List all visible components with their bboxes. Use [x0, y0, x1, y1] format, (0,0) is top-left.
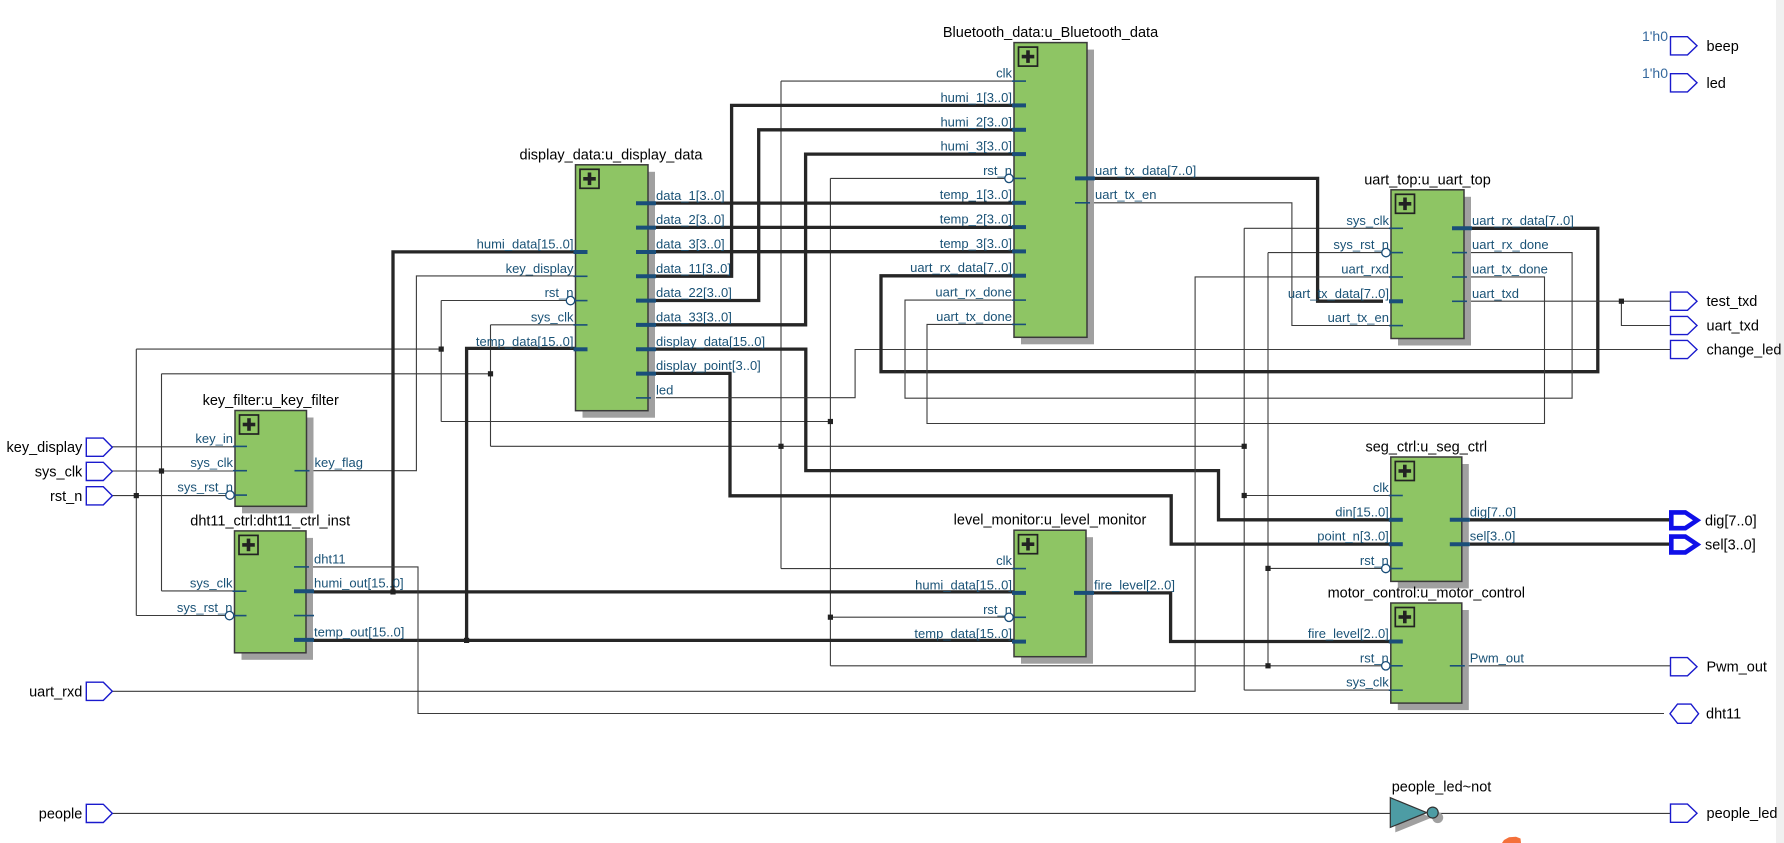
svg-text:uart_top:u_uart_top: uart_top:u_uart_top: [1364, 172, 1491, 188]
module seg_ctrl:u_seg_ctrl: [1317, 440, 1516, 589]
svg-text:temp_1[3..0]: temp_1[3..0]: [940, 187, 1012, 202]
svg-text:key_filter:u_key_filter: key_filter:u_key_filter: [203, 393, 339, 409]
wire sys_clk riser left: [161, 374, 163, 591]
svg-text:display_point[3..0]: display_point[3..0]: [656, 358, 761, 373]
junction rst_n: [828, 419, 833, 424]
svg-text:rst_n: rst_n: [1360, 553, 1389, 568]
wire rst_n riser bluetooth: [829, 178, 831, 665]
wire sys_clk to uart_top: [1244, 227, 1391, 229]
svg-text:rst_n: rst_n: [545, 285, 574, 300]
wire sys_clk to dht11_ctrl: [162, 590, 235, 592]
input pin rst_n: [50, 487, 112, 505]
output pin led: [1671, 74, 1726, 92]
wire data_22 to humi_2: [656, 130, 1014, 301]
wire fire_level bus: [1094, 593, 1391, 642]
junction rst_n: [828, 615, 833, 620]
svg-text:sys_clk: sys_clk: [190, 576, 233, 591]
module key_filter:u_key_filter: [177, 393, 363, 513]
svg-text:data_33[3..0]: data_33[3..0]: [656, 309, 732, 324]
svg-text:people: people: [39, 806, 83, 822]
wire clk to Bluetooth_data: [781, 80, 1014, 82]
svg-text:din[15..0]: din[15..0]: [1335, 504, 1389, 519]
wire uart_rxd pin to uart_top: [112, 277, 1391, 691]
wire key_flag to display key_display: [306, 276, 576, 471]
svg-text:rst_n: rst_n: [50, 489, 82, 505]
svg-text:humi_out[15..0]: humi_out[15..0]: [314, 576, 404, 591]
svg-text:uart_txd: uart_txd: [1707, 319, 1759, 335]
wire rst_n to motor_control: [830, 665, 1382, 667]
junction sys_clk: [488, 371, 493, 376]
wire dht11 to pin: [306, 567, 1664, 714]
wire humi_out bus: [312, 590, 1014, 593]
svg-text:temp_2[3..0]: temp_2[3..0]: [940, 212, 1012, 227]
junction sys_clk: [778, 444, 783, 449]
svg-text:sys_rst_n: sys_rst_n: [177, 600, 233, 615]
wire rst_n pin to key_filter: [112, 495, 226, 497]
inverter people_led~not: [1390, 780, 1491, 833]
svg-text:dht11_ctrl:dht11_ctrl_inst: dht11_ctrl:dht11_ctrl_inst: [190, 513, 350, 529]
svg-text:uart_tx_done: uart_tx_done: [1472, 262, 1548, 277]
svg-text:fire_level[2..0]: fire_level[2..0]: [1308, 626, 1389, 641]
wire display_point to seg point_n: [656, 373, 1391, 544]
wire sys_clk to seg_ctrl: [1244, 495, 1391, 497]
wire uart_rx_data bus: [881, 228, 1598, 371]
wire data_11 to humi_1: [656, 105, 1014, 276]
wire sys_clk riser mid: [490, 325, 492, 447]
wire sel bus to pin: [1470, 542, 1669, 545]
wire data_2 to temp_2: [656, 226, 1014, 229]
module Bluetooth_data:u_Bluetooth_data: [910, 25, 1196, 344]
svg-text:led: led: [656, 382, 673, 397]
wire sys_clk horizontal upper: [162, 373, 491, 375]
wire uart_tx_data bus: [1087, 178, 1383, 301]
svg-text:sys_clk: sys_clk: [35, 464, 83, 480]
wire sys_clk pin to key_filter: [112, 470, 235, 472]
junction rst_n: [134, 493, 139, 498]
wire sys_clk riser right: [1243, 228, 1245, 690]
svg-text:sel[3..0]: sel[3..0]: [1470, 529, 1516, 544]
wire uart_rx_done: [905, 253, 1572, 399]
svg-text:data_1[3..0]: data_1[3..0]: [656, 188, 725, 203]
wire people pin to not gate: [112, 812, 1390, 814]
wire humi branch to display: [393, 252, 576, 592]
wire data_1 to temp_1: [656, 201, 1014, 204]
wire rst_n horizontal top: [136, 348, 441, 350]
wire temp branch to display: [467, 348, 576, 640]
wire rst_n horizontal mid: [441, 421, 830, 423]
svg-text:uart_txd: uart_txd: [1472, 286, 1519, 301]
svg-text:temp_data[15..0]: temp_data[15..0]: [476, 334, 574, 349]
input pin key_display: [7, 438, 113, 456]
svg-text:uart_rxd: uart_rxd: [1341, 262, 1389, 277]
svg-text:temp_data[15..0]: temp_data[15..0]: [914, 626, 1012, 641]
output pin dig[7..0]: [1671, 512, 1756, 529]
svg-text:clk: clk: [1373, 480, 1389, 495]
junction rst_n: [1265, 663, 1270, 668]
wire rst_n to level_monitor: [830, 616, 1005, 618]
svg-text:change_led: change_led: [1707, 343, 1782, 359]
svg-text:sys_rst_n: sys_rst_n: [177, 480, 233, 495]
svg-text:sys_clk: sys_clk: [190, 455, 233, 470]
svg-text:test_txd: test_txd: [1707, 294, 1758, 310]
junction humi_out: [390, 589, 395, 594]
svg-text:seg_ctrl:u_seg_ctrl: seg_ctrl:u_seg_ctrl: [1365, 440, 1487, 456]
svg-text:level_monitor:u_level_monitor: level_monitor:u_level_monitor: [954, 513, 1147, 529]
svg-text:fire_level[2..0]: fire_level[2..0]: [1094, 577, 1175, 592]
svg-text:uart_tx_en: uart_tx_en: [1328, 310, 1389, 325]
wire rst_n riser mid: [440, 301, 442, 422]
svg-text:humi_1[3..0]: humi_1[3..0]: [940, 90, 1012, 105]
svg-text:led: led: [1707, 76, 1726, 92]
svg-text:clk: clk: [996, 553, 1012, 568]
svg-text:data_11[3..0]: data_11[3..0]: [656, 261, 731, 276]
wire rst_n to dht11_ctrl: [136, 615, 226, 617]
svg-text:key_flag: key_flag: [315, 455, 363, 470]
wire uart_txd branch: [1621, 301, 1670, 325]
svg-text:sys_rst_n: sys_rst_n: [1333, 237, 1389, 252]
svg-text:uart_tx_en: uart_tx_en: [1095, 187, 1156, 202]
wire uart_tx_en: [1087, 203, 1391, 326]
svg-text:dig[7..0]: dig[7..0]: [1470, 504, 1516, 519]
svg-text:1'h0: 1'h0: [1642, 65, 1668, 81]
svg-text:sel[3..0]: sel[3..0]: [1705, 538, 1756, 554]
wire led to change_led: [656, 350, 1670, 398]
junction rst_n: [439, 347, 444, 352]
wire rst_n to seg_ctrl: [1268, 567, 1382, 569]
svg-text:data_3[3..0]: data_3[3..0]: [656, 237, 725, 252]
svg-text:Pwm_out: Pwm_out: [1707, 660, 1767, 676]
junction sys_clk: [1242, 444, 1247, 449]
wire rst_n riser right: [1267, 253, 1269, 666]
input pin people: [39, 804, 113, 822]
svg-text:Bluetooth_data:u_Bluetooth_dat: Bluetooth_data:u_Bluetooth_data: [943, 25, 1159, 41]
module uart_top:u_uart_top: [1288, 172, 1574, 345]
output pin sel[3..0]: [1671, 537, 1755, 554]
svg-text:point_n[3..0]: point_n[3..0]: [1317, 529, 1389, 544]
svg-text:rst_n: rst_n: [1360, 650, 1389, 665]
wire clk riser bluetooth: [780, 81, 782, 568]
wire dig bus to pin: [1470, 518, 1669, 521]
wire sys_clk horizontal lower: [491, 445, 1245, 447]
svg-text:display_data:u_display_data: display_data:u_display_data: [520, 147, 704, 163]
wire display_data to seg din: [656, 349, 1391, 520]
svg-text:clk: clk: [996, 66, 1012, 81]
svg-text:data_2[3..0]: data_2[3..0]: [656, 212, 725, 227]
input pin sys_clk: [35, 462, 113, 480]
svg-text:people_led: people_led: [1707, 806, 1778, 822]
svg-text:1'h0: 1'h0: [1642, 28, 1668, 44]
wire rst_n to uart_top: [1268, 252, 1382, 254]
junction rst_n: [1265, 566, 1270, 571]
module display_data:u_display_data: [476, 147, 765, 417]
output pin change_led: [1671, 340, 1782, 358]
svg-text:rst_n: rst_n: [983, 602, 1012, 617]
svg-text:dht11: dht11: [314, 551, 346, 566]
svg-text:rst_n: rst_n: [983, 163, 1012, 178]
wire temp_out bus: [312, 639, 1014, 642]
output pin uart_txd: [1671, 316, 1759, 334]
svg-text:key_display: key_display: [506, 261, 574, 276]
wire Pwm_out to pin: [1467, 665, 1670, 667]
wire data_3 to temp_3: [656, 250, 1014, 253]
svg-text:key_in: key_in: [195, 431, 233, 446]
orange logo fragment: [1502, 837, 1521, 843]
junction sys_clk: [1242, 493, 1247, 498]
svg-text:people_led~not: people_led~not: [1392, 780, 1492, 796]
bidir pin dht11: [1670, 704, 1741, 723]
wire data_33 to humi_3: [656, 154, 1014, 325]
junction sys_clk: [159, 468, 164, 473]
wire uart_txd to test_txd: [1467, 300, 1670, 302]
wire sys_clk to display_data: [491, 324, 576, 326]
wire rst_n riser left: [135, 349, 137, 615]
svg-text:Pwm_out: Pwm_out: [1470, 650, 1525, 665]
svg-text:sys_clk: sys_clk: [1346, 213, 1389, 228]
svg-text:sys_clk: sys_clk: [531, 309, 574, 324]
junction temp_out: [464, 638, 469, 643]
wire rst_n to Bluetooth_data: [830, 177, 1005, 179]
input pin uart_rxd: [29, 682, 112, 700]
output pin test_txd: [1671, 292, 1758, 310]
svg-text:temp_3[3..0]: temp_3[3..0]: [940, 236, 1012, 251]
svg-text:humi_3[3..0]: humi_3[3..0]: [940, 139, 1012, 154]
svg-text:display_data[15..0]: display_data[15..0]: [656, 334, 765, 349]
wire rst_n to display_data: [441, 300, 566, 302]
svg-text:humi_2[3..0]: humi_2[3..0]: [940, 114, 1012, 129]
svg-text:key_display: key_display: [7, 440, 84, 456]
module level_monitor:u_level_monitor: [914, 513, 1175, 664]
svg-text:uart_rxd: uart_rxd: [29, 684, 82, 700]
module motor_control:u_motor_control: [1308, 586, 1525, 711]
svg-text:data_22[3..0]: data_22[3..0]: [656, 285, 732, 300]
svg-text:uart_rx_data[7..0]: uart_rx_data[7..0]: [910, 260, 1012, 275]
wire uart_tx_done: [927, 277, 1545, 424]
scrollbar strip: [1776, 0, 1784, 843]
svg-text:uart_rx_done: uart_rx_done: [935, 285, 1012, 300]
module dht11_ctrl:dht11_ctrl_inst: [177, 513, 404, 659]
junction uart_txd: [1619, 299, 1624, 304]
svg-text:uart_tx_data[7..0]: uart_tx_data[7..0]: [1288, 286, 1389, 301]
svg-text:humi_data[15..0]: humi_data[15..0]: [477, 237, 574, 252]
output pin Pwm_out: [1671, 658, 1767, 676]
svg-text:motor_control:u_motor_control: motor_control:u_motor_control: [1328, 586, 1525, 602]
svg-text:uart_rx_data[7..0]: uart_rx_data[7..0]: [1472, 213, 1574, 228]
wire clk to level_monitor: [781, 568, 1014, 570]
svg-text:uart_rx_done: uart_rx_done: [1472, 237, 1549, 252]
wire key_display pin to key_in: [112, 446, 235, 448]
svg-text:uart_tx_data[7..0]: uart_tx_data[7..0]: [1095, 163, 1196, 178]
svg-text:dht11: dht11: [1706, 707, 1741, 723]
svg-text:temp_out[15..0]: temp_out[15..0]: [314, 624, 404, 639]
svg-text:beep: beep: [1707, 39, 1739, 55]
wire sys_clk to motor_control: [1244, 689, 1391, 691]
wire not gate to people_led pin: [1438, 812, 1670, 814]
svg-text:sys_clk: sys_clk: [1346, 675, 1389, 690]
svg-text:dig[7..0]: dig[7..0]: [1705, 513, 1757, 529]
output pin beep: [1671, 37, 1739, 55]
svg-text:humi_data[15..0]: humi_data[15..0]: [915, 577, 1012, 592]
output pin people_led: [1671, 804, 1778, 822]
svg-text:uart_tx_done: uart_tx_done: [936, 309, 1012, 324]
